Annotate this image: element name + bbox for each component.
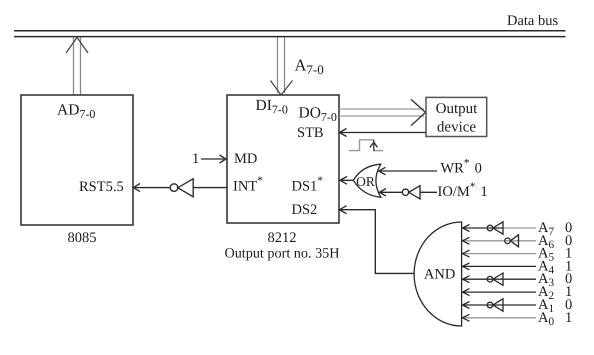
svg-text:device: device: [437, 120, 476, 136]
svg-text:OR: OR: [356, 174, 375, 189]
svg-text:DS2: DS2: [292, 202, 318, 218]
svg-text:RST5.5: RST5.5: [79, 179, 124, 195]
wire: INT* out of 8212 to inverter: [193, 187, 227, 189]
svg-text:IO/M*1: IO/M*1: [438, 181, 488, 200]
wire: DS2 from AND gate output: [340, 206, 415, 274]
wire: inverter output to RST5.5 with arrowhead: [133, 184, 170, 192]
data bus wire (upper line): [14, 30, 566, 32]
wire: A7-0 double-line arrow from data bus down to 8212: [271, 38, 293, 96]
inverter on A3 line: [487, 273, 503, 285]
8085 microprocessor box: [21, 95, 133, 225]
wire: A4 input with arrowhead: [463, 263, 537, 270]
svg-text:8085: 8085: [68, 230, 97, 246]
wire: A2 input with arrowhead: [463, 289, 537, 296]
svg-text:MD: MD: [234, 151, 257, 167]
svg-text:WR*0: WR*0: [441, 158, 482, 177]
wire: A5 input with arrowhead: [463, 250, 537, 257]
inverter on A6 line: [505, 235, 519, 247]
wire: STB from output device back to 8212 with arrowhead: [340, 129, 427, 137]
svg-text:STB: STB: [297, 125, 324, 141]
svg-text:1: 1: [192, 151, 199, 167]
strobe pulse symbol: [349, 140, 383, 151]
inverter (NOT gate) between INT* and RST5.5: [170, 179, 193, 197]
Output device box: [426, 97, 487, 136]
wire: A0 input with arrowhead: [463, 314, 537, 321]
inverter on A1 line: [487, 299, 503, 311]
wire: A7 input with arrowhead: [463, 225, 537, 232]
wire: A1 input with arrowhead: [463, 302, 537, 309]
svg-text:Data bus: Data bus: [507, 13, 558, 29]
data bus wire (lower line): [14, 36, 566, 38]
wire: IO/M* line into inverter then OR gate bottom input: [380, 189, 403, 197]
svg-text:AND: AND: [424, 267, 455, 283]
svg-text:1: 1: [565, 310, 572, 326]
wire: 1 to MD with arrowhead: [201, 155, 226, 163]
inverter on A7 line: [487, 222, 503, 234]
8212 latch box: [227, 95, 339, 223]
svg-text:Output: Output: [436, 101, 479, 117]
wire: DO7-0 double line to output device: [339, 99, 426, 125]
wire: AD7-0 double-line arrow from 8085 up to data bus: [66, 37, 88, 95]
wire: A6 input with arrowhead: [463, 237, 537, 244]
AND gate (mirrored, inputs on right flat edge): [414, 222, 461, 326]
wire: A3 input with arrowhead: [463, 276, 537, 283]
inverter on IO/M* line: [402, 186, 437, 199]
wire: OR output to DS1* with arrowhead: [340, 177, 353, 185]
wire: WR* input to OR gate top input with arrowhead: [379, 167, 437, 175]
svg-text:8212: 8212: [268, 230, 297, 246]
svg-text:Output port no. 35H: Output port no. 35H: [224, 246, 339, 262]
OR gate (mirrored, inputs on right): [353, 164, 380, 197]
